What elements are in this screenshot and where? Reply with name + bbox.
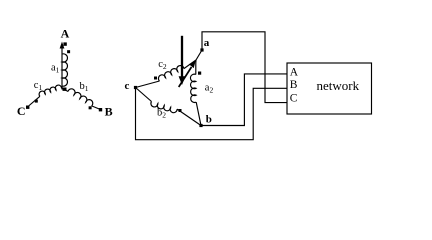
svg-text:c1: c1 bbox=[34, 80, 43, 92]
dot marker near A arrow bbox=[63, 42, 66, 45]
svg-text:B: B bbox=[290, 79, 298, 91]
wire: lead coil a2 to node b bbox=[196, 102, 201, 125]
phasor arrow vertical (down) bbox=[181, 36, 183, 78]
dot marker at coil b1 end bbox=[89, 106, 92, 109]
svg-text:C: C bbox=[17, 104, 26, 118]
coil c2 bbox=[158, 66, 183, 81]
terminal dot C bbox=[26, 106, 29, 109]
wire: lead coil c2 to node a bbox=[184, 50, 202, 69]
svg-text:c: c bbox=[125, 80, 130, 92]
dot marker at coil b2 end bbox=[179, 109, 182, 112]
dot marker near coil c2 start bbox=[154, 77, 157, 80]
wire: wye branch B lead from center bbox=[65, 90, 69, 92]
network box bbox=[287, 63, 372, 114]
svg-text:C: C bbox=[290, 92, 298, 104]
phasor arrow diagonal (up-right) bbox=[179, 67, 192, 87]
svg-text:b1: b1 bbox=[80, 81, 89, 93]
wire: wye branch C lead from center bbox=[62, 88, 65, 89]
node c dot bbox=[134, 86, 137, 89]
wire: lead to terminal C bbox=[28, 96, 40, 106]
svg-text:a1: a1 bbox=[51, 63, 60, 75]
terminal arrow A bbox=[60, 42, 65, 49]
wire: node c to network row B bbox=[136, 88, 288, 140]
dot marker near C end bbox=[35, 100, 38, 103]
terminal dot B bbox=[99, 108, 102, 111]
dot marker at coil a1 top bbox=[67, 50, 70, 53]
delta edge a-b: lead from node a bbox=[195, 60, 197, 75]
svg-text:a2: a2 bbox=[205, 82, 214, 94]
wire: node b to network row A bbox=[201, 74, 287, 126]
svg-text:A: A bbox=[290, 66, 299, 78]
node a dot bbox=[200, 48, 203, 51]
svg-text:B: B bbox=[105, 104, 113, 118]
delta edge c-b: lead from node c bbox=[136, 88, 152, 102]
svg-text:b: b bbox=[206, 113, 212, 125]
delta edge c-a: lead from node c bbox=[136, 81, 160, 88]
node b dot bbox=[199, 124, 202, 127]
svg-text:a: a bbox=[204, 37, 210, 49]
coil a2 bbox=[190, 74, 196, 102]
wire: lead coil b2 to node b bbox=[177, 109, 201, 125]
wire: node a to network row C bbox=[202, 32, 287, 103]
coil c1 bbox=[39, 85, 61, 96]
svg-text:A: A bbox=[61, 26, 70, 40]
node: wye center junction bbox=[63, 88, 67, 91]
coil b2 bbox=[151, 102, 177, 113]
coil a1 bbox=[62, 54, 67, 86]
dot marker at coil a2 top bbox=[198, 72, 201, 75]
coil b1 bbox=[68, 89, 93, 106]
wire: lead to terminal B bbox=[92, 106, 101, 110]
svg-text:c2: c2 bbox=[158, 59, 167, 71]
svg-text:network: network bbox=[317, 78, 360, 93]
wire: wye branch A vertical lead bbox=[61, 47, 63, 90]
